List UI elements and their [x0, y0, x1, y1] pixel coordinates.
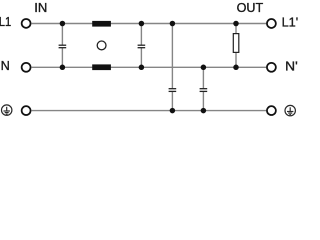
capacitor CY1 — [169, 89, 177, 92]
wire vertical capacitor branch CY2 (N to PE) — [202, 67, 204, 110]
wire vertical resistor branch — [235, 24, 237, 68]
svg-text:L1': L1' — [282, 15, 299, 29]
node junction dots N line — [60, 65, 239, 71]
node junction dots top line — [60, 21, 239, 27]
svg-text:N': N' — [285, 59, 298, 73]
inductor choke winding N (bottom) — [92, 64, 111, 70]
terminal L1 (input) — [22, 19, 31, 28]
terminal N (input) — [22, 63, 31, 72]
terminal PE (input) — [22, 106, 31, 115]
resistor R1 (discharge resistor) — [233, 34, 239, 53]
svg-text:N: N — [1, 59, 10, 73]
wire vertical capacitor branch CX2 — [140, 24, 142, 68]
terminal N' (output) — [267, 63, 276, 72]
svg-text:IN: IN — [34, 1, 47, 15]
inductor choke winding L (top) — [92, 21, 111, 27]
terminal L1' (output) — [267, 19, 276, 28]
svg-text:L1: L1 — [0, 15, 11, 29]
wire N line — [32, 66, 267, 68]
wire vertical capacitor branch CX1 — [61, 24, 63, 68]
capacitor CY2 — [200, 89, 208, 92]
terminal PE' (output) — [267, 106, 276, 115]
choke core indicator circle — [97, 41, 106, 50]
node junction dots PE line — [170, 108, 207, 114]
wire L1 line — [32, 23, 267, 25]
ground earth symbol left — [2, 105, 12, 115]
wire vertical capacitor branch CY1 (L1 to PE, crosses N) — [171, 24, 173, 111]
ground earth symbol right — [285, 105, 295, 115]
svg-text:OUT: OUT — [237, 1, 264, 15]
wire PE ground line — [32, 110, 267, 112]
capacitor CX1 — [59, 45, 67, 48]
capacitor CX2 — [138, 45, 146, 48]
